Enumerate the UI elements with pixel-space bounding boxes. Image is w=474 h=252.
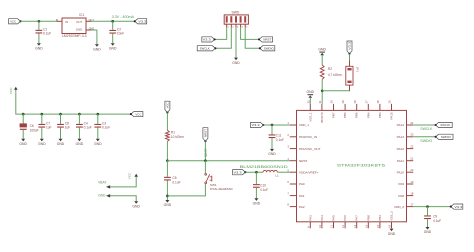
- ground below C9: [424, 227, 432, 234]
- wire R1 to NRST rail: [166, 141, 169, 162]
- net flag VCC (R1 pullup): [165, 101, 170, 113]
- svg-text:GND: GND: [98, 193, 106, 197]
- wire BOOT0 to JP1: [322, 85, 349, 91]
- svg-text:V3.3: V3.3: [234, 170, 242, 174]
- svg-text:SWCLK: SWCLK: [200, 46, 210, 50]
- U1 left pins: [287, 121, 320, 209]
- svg-text:VCC: VCC: [166, 102, 170, 108]
- svg-text:100uF: 100uF: [30, 128, 39, 132]
- svg-text:BLM21BB600SN1D: BLM21BB600SN1D: [240, 165, 289, 169]
- svg-text:PA14: PA14: [397, 123, 405, 127]
- svg-text:0.1uF: 0.1uF: [172, 180, 180, 184]
- SWD header pins: [227, 24, 248, 28]
- wire VDD_2 to V3.3: [413, 205, 451, 208]
- wire IC1 GND to ground: [92, 30, 97, 44]
- net flag V3.3 (VDDA): [233, 170, 247, 175]
- svg-text:C6: C6: [30, 124, 34, 128]
- svg-text:19: 19: [410, 180, 413, 184]
- wire IC1 OUT to V3.3: [92, 20, 135, 23]
- net flag V3.3 (JP1): [347, 41, 352, 55]
- svg-text:0.1uF: 0.1uF: [102, 126, 110, 130]
- ground above VSS_1: [307, 90, 315, 98]
- svg-text:KSS-2E04530: KSS-2E04530: [210, 187, 233, 191]
- net label GND (VBAT return): [98, 193, 106, 197]
- net name SWDIO (green): [420, 139, 432, 143]
- svg-text:4.7 kOhm: 4.7 kOhm: [328, 73, 342, 77]
- capacitor C4 0.1uF: [76, 113, 92, 146]
- svg-text:25: 25: [388, 100, 392, 103]
- wire NRST label to rail: [204, 141, 207, 162]
- ground below IC1: [93, 44, 101, 51]
- ground below SWD: [232, 58, 240, 65]
- svg-text:PB3: PB3: [378, 112, 382, 118]
- U1 right pins: [394, 121, 414, 209]
- ground below C5: [164, 200, 172, 207]
- wire V3.3 to VDD_1: [263, 124, 289, 127]
- svg-text:PA1: PA1: [299, 194, 305, 198]
- resistor R2: [320, 65, 342, 79]
- svg-text:0.1uF: 0.1uF: [433, 219, 441, 223]
- svg-text:PA5: PA5: [332, 215, 336, 221]
- svg-text:GND: GND: [253, 202, 261, 206]
- svg-text:BOOT0: BOOT0: [320, 112, 324, 123]
- svg-text:STM32F303K8T6: STM32F303K8T6: [337, 163, 385, 167]
- supply symbol VCC (rail): [9, 87, 17, 94]
- svg-text:VCC: VCC: [135, 112, 142, 116]
- connector SWD header: [224, 15, 248, 24]
- svg-text:GND: GND: [268, 152, 276, 156]
- net flag SWCLK (SWD): [197, 46, 216, 51]
- wire R2 to BOOT0: [321, 79, 324, 104]
- svg-text:20: 20: [410, 168, 413, 172]
- svg-text:PB6: PB6: [343, 112, 347, 118]
- svg-text:V3.3: V3.3: [203, 38, 211, 42]
- capacitor C8 1uF: [57, 113, 71, 146]
- svg-text:17: 17: [410, 203, 413, 207]
- svg-text:GND: GND: [76, 28, 82, 32]
- svg-text:PA9: PA9: [398, 182, 404, 186]
- svg-text:GND: GND: [19, 142, 27, 146]
- svg-text:IN: IN: [56, 19, 59, 22]
- wire PA13 to SWDIO: [413, 136, 435, 138]
- svg-text:23: 23: [410, 133, 413, 137]
- svg-text:PA4: PA4: [320, 215, 324, 221]
- svg-text:28: 28: [353, 100, 357, 103]
- capacitor C7 1uF: [38, 113, 52, 146]
- svg-text:PA8: PA8: [398, 194, 404, 198]
- svg-text:V3.3: V3.3: [252, 123, 260, 127]
- jumper JP1: [346, 66, 360, 91]
- inductor L1 ferrite bead: [263, 170, 279, 177]
- svg-text:C5: C5: [172, 176, 176, 180]
- capacitor C1 0.1uF: [35, 21, 51, 50]
- svg-text:1uF: 1uF: [46, 126, 52, 130]
- svg-text:15: 15: [376, 224, 380, 227]
- svg-text:SWDIO: SWDIO: [420, 139, 432, 143]
- svg-text:V3.3: V3.3: [348, 41, 352, 50]
- net flag V3.3 (VDD): [251, 122, 265, 127]
- wire SWD pin2 to SWCLK: [215, 28, 231, 49]
- svg-text:PA7: PA7: [355, 215, 359, 221]
- wire SWD pin1 to V3.3: [215, 28, 227, 40]
- svg-text:PB1: PB1: [378, 215, 382, 221]
- svg-text:1uF: 1uF: [65, 126, 71, 130]
- capacitor C2 10uF: [109, 20, 124, 50]
- net flag SWCLK (U1): [435, 122, 453, 127]
- ground above R2: [318, 48, 326, 56]
- svg-text:PF0/OSC_IN: PF0/OSC_IN: [299, 135, 317, 139]
- svg-text:R2: R2: [328, 67, 332, 71]
- svg-text:18: 18: [410, 192, 413, 196]
- wire VCC to R1: [166, 113, 168, 131]
- net flag V3.3 (SWD): [202, 37, 216, 42]
- svg-text:IC1: IC1: [79, 13, 84, 17]
- wire PA14 to SWCLK: [413, 124, 435, 126]
- svg-text:16: 16: [388, 224, 392, 227]
- svg-text:SWCLK: SWCLK: [420, 127, 433, 131]
- resistor R1: [166, 130, 185, 141]
- svg-text:PA2: PA2: [299, 205, 305, 209]
- ground below C6: [19, 139, 27, 146]
- svg-text:27: 27: [364, 100, 368, 103]
- svg-text:GND: GND: [76, 142, 84, 146]
- svg-text:GND: GND: [318, 48, 326, 52]
- svg-text:PB5: PB5: [355, 112, 359, 118]
- net flag SWDIO (SWD): [259, 46, 275, 51]
- svg-text:13: 13: [353, 224, 357, 227]
- label SWD: [231, 10, 239, 14]
- label BLM21BB600SN1D: [240, 165, 289, 169]
- svg-text:24: 24: [410, 121, 413, 125]
- svg-text:GND: GND: [164, 203, 172, 207]
- svg-text:29: 29: [341, 100, 345, 103]
- svg-text:0.1uF: 0.1uF: [84, 126, 92, 130]
- svg-text:GND: GND: [57, 142, 65, 146]
- svg-text:OUT: OUT: [76, 20, 82, 24]
- svg-text:PB0: PB0: [366, 215, 370, 221]
- svg-text:SWDIO: SWDIO: [441, 135, 452, 139]
- svg-text:R1: R1: [171, 131, 175, 135]
- wire VBAT to VCC: [106, 179, 136, 188]
- svg-text:GND: GND: [94, 142, 102, 146]
- svg-text:SWCLK: SWCLK: [440, 123, 450, 127]
- svg-text:GND: GND: [388, 232, 396, 236]
- svg-text:V3.3: V3.3: [454, 205, 462, 209]
- wire V3.3 to L1: [245, 171, 263, 174]
- net name SWCLK (green): [420, 127, 433, 131]
- wire L1 to VDDA: [277, 171, 289, 173]
- svg-text:VSS_2: VSS_2: [390, 211, 394, 221]
- svg-text:VDD_1: VDD_1: [299, 123, 309, 127]
- svg-text:NRST: NRST: [263, 38, 271, 42]
- svg-text:PA13: PA13: [397, 135, 405, 139]
- svg-text:GND: GND: [109, 46, 117, 50]
- ground below C11: [268, 149, 276, 156]
- svg-text:0.1uF: 0.1uF: [43, 32, 51, 36]
- capacitor C3 0.1uF: [94, 113, 110, 146]
- wire SWD pin4 to NRST: [241, 28, 259, 40]
- wire NRST rail: [167, 160, 289, 162]
- wire GND return: [106, 194, 136, 201]
- wire ground to VSS_1 pin: [309, 98, 311, 104]
- svg-text:VCC: VCC: [128, 172, 132, 179]
- U1 top pins: [306, 100, 393, 123]
- wire SW1 to ground: [167, 184, 205, 196]
- svg-text:NRST: NRST: [204, 129, 208, 137]
- svg-text:10 kOhm: 10 kOhm: [171, 135, 184, 139]
- svg-text:VDD_2: VDD_2: [394, 205, 404, 209]
- svg-text:12: 12: [341, 224, 345, 227]
- net flag V3.3 (VDD_2): [450, 204, 463, 209]
- svg-text:GND: GND: [35, 46, 43, 50]
- ground below C10: [253, 198, 261, 205]
- svg-text:PB4: PB4: [366, 112, 370, 118]
- wire ground to R2: [321, 55, 323, 65]
- svg-text:32: 32: [306, 100, 310, 103]
- wire SWD pin3 to ground: [235, 28, 237, 58]
- ground below VSS_2: [388, 229, 396, 236]
- net flag NRST (SWD): [258, 37, 273, 42]
- net flag SWDIO (U1): [435, 134, 453, 139]
- wire VCC rail: [16, 93, 131, 114]
- svg-text:30: 30: [330, 100, 334, 103]
- svg-text:PA12: PA12: [397, 147, 405, 151]
- power flag VCC (input): [9, 19, 22, 24]
- svg-text:GND: GND: [424, 230, 432, 234]
- svg-text:3.3V - 400mA: 3.3V - 400mA: [112, 15, 135, 19]
- wire SWD pin5 to SWDIO: [245, 28, 260, 49]
- switch SW1: [205, 173, 233, 191]
- svg-text:JP1: JP1: [355, 67, 359, 73]
- power flag VCC (rail right end): [130, 112, 143, 117]
- svg-text:PA10: PA10: [397, 170, 405, 174]
- net name NRST (green): [204, 148, 208, 157]
- svg-text:31: 31: [318, 100, 322, 103]
- svg-text:10: 10: [318, 224, 322, 227]
- svg-text:V3.3: V3.3: [138, 19, 146, 23]
- microcontroller U1 STM32F303K8T6 body: [297, 110, 407, 221]
- svg-text:VBAT: VBAT: [98, 180, 106, 184]
- supply symbol VCC (VBAT): [128, 172, 138, 179]
- svg-text:PF1/OSC_OUT: PF1/OSC_OUT: [299, 147, 321, 151]
- svg-text:PB7: PB7: [332, 112, 336, 118]
- net flag NRST (reset rail): [203, 128, 208, 143]
- power flag V3.3 (regulator output): [134, 19, 147, 24]
- svg-text:PA15: PA15: [390, 112, 394, 119]
- svg-text:LM2937IMP-3.3: LM2937IMP-3.3: [62, 34, 87, 38]
- svg-text:GND: GND: [132, 204, 140, 208]
- svg-text:GND: GND: [38, 142, 46, 146]
- ground below VBAT return: [132, 201, 140, 208]
- svg-text:26: 26: [376, 100, 380, 103]
- svg-text:L1: L1: [275, 174, 279, 178]
- wire NRST branch down: [166, 161, 168, 177]
- svg-text:IN: IN: [65, 20, 68, 24]
- svg-text:10uF: 10uF: [117, 32, 124, 36]
- capacitor C9 0.1uF: [424, 207, 441, 227]
- svg-text:GND: GND: [93, 47, 101, 51]
- svg-text:14: 14: [364, 224, 368, 227]
- capacitor C11 0.1uF: [269, 125, 284, 149]
- svg-text:PA3: PA3: [308, 215, 312, 221]
- svg-text:GND: GND: [232, 61, 240, 65]
- svg-text:21: 21: [410, 157, 413, 161]
- svg-text:NRST: NRST: [299, 159, 308, 163]
- svg-text:VDDA/VREF+: VDDA/VREF+: [299, 170, 319, 174]
- svg-text:VCC: VCC: [9, 87, 13, 94]
- svg-text:PA6: PA6: [343, 215, 347, 221]
- svg-text:PA11: PA11: [397, 159, 404, 163]
- svg-text:PA0: PA0: [299, 182, 305, 186]
- capacitor C6 100uF (polarized): [20, 113, 39, 139]
- svg-text:GND: GND: [307, 90, 315, 94]
- wire V3.3 to JP1: [349, 54, 351, 67]
- svg-text:22: 22: [410, 145, 413, 149]
- svg-text:0.1uF: 0.1uF: [276, 138, 284, 142]
- wire rail to SW1: [204, 161, 206, 174]
- svg-text:SWDIO: SWDIO: [264, 46, 275, 50]
- svg-text:VCC: VCC: [10, 19, 17, 23]
- svg-text:SWD: SWD: [231, 10, 239, 14]
- voltage regulator IC1: [56, 13, 95, 38]
- capacitor C5 0.1uF: [164, 176, 181, 200]
- net label VBAT: [98, 180, 106, 184]
- U1 bottom pins: [306, 211, 393, 228]
- wire VCC to IC1 IN: [21, 20, 57, 23]
- svg-text:VSS_1: VSS_1: [308, 112, 312, 122]
- label 3.3V - 400mA: [112, 15, 135, 19]
- svg-text:0.1uF: 0.1uF: [260, 188, 268, 192]
- capacitor C10 0.1uF: [253, 172, 268, 198]
